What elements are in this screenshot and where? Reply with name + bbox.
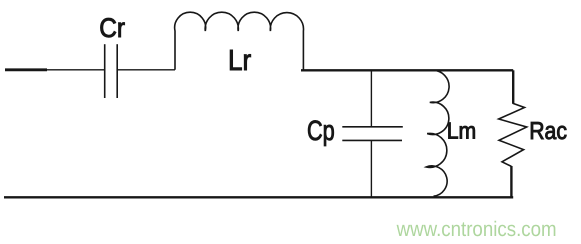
wire input terminal (thick left lead) [5, 68, 47, 71]
svg-text:Cp: Cp [307, 115, 335, 146]
svg-text:www.cntronics.com: www.cntronics.com [396, 218, 557, 241]
wire Rac bottom lead [510, 166, 512, 197]
capacitor Cp [342, 127, 403, 141]
wire top rail (Lr to Rac) [301, 69, 513, 71]
svg-text:Cr: Cr [99, 13, 125, 43]
wire Cr to Lr [117, 69, 175, 71]
wire Cp bottom lead [370, 140, 372, 197]
wire Cp top lead [370, 70, 372, 126]
resistor Rac [499, 103, 527, 166]
svg-text:Lr: Lr [228, 45, 251, 77]
inductor Lr [175, 12, 304, 70]
svg-text:Lm: Lm [447, 117, 477, 143]
capacitor Cr [105, 44, 118, 98]
wire bottom rail [4, 196, 513, 198]
inductor Lm [426, 70, 449, 196]
wire Rac top lead [512, 70, 514, 104]
wire input to Cr [46, 69, 104, 71]
svg-text:Rac: Rac [529, 118, 567, 145]
